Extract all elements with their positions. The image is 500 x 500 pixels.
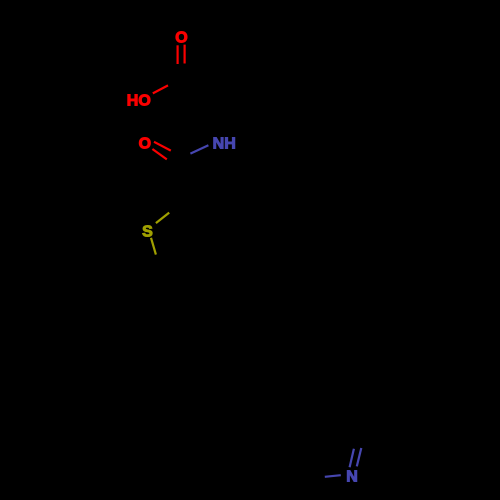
bond C=O2 double bond red half upper line <box>154 142 171 151</box>
bond C=O2 double bond red half lower line <box>152 149 166 159</box>
bond C=N2 double bond blue half left line <box>350 449 354 467</box>
bond N-C amide blue half <box>190 145 208 153</box>
bond C=N2 double bond blue half right line <box>357 448 362 466</box>
bond C=O1 double bond red half line 1 <box>177 45 179 64</box>
svg-text:NH: NH <box>213 135 236 152</box>
svg-text:N: N <box>346 468 358 485</box>
bond C=O1 double bond red half line 2 <box>184 45 186 64</box>
bond S-C5 olive half <box>151 238 156 255</box>
bond N2-C single blue half <box>325 475 341 477</box>
svg-text:O: O <box>175 29 187 46</box>
bond HO-C red half <box>153 85 168 93</box>
bond S-C2 olive half <box>156 213 169 224</box>
svg-text:HO: HO <box>127 92 151 109</box>
svg-text:O: O <box>139 136 151 153</box>
